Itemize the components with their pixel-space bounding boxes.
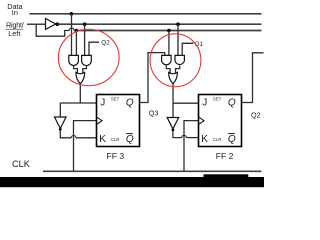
svg-text:FF 3: FF 3 — [107, 151, 125, 161]
label Q2 stub — [101, 40, 110, 47]
label Q3 — [149, 109, 159, 118]
junction dot line3 tap cluster2 — [167, 29, 171, 33]
inverter N2 — [167, 118, 179, 132]
wire: line3 drop to AND3 input — [168, 31, 170, 56]
taskbar black bar — [0, 177, 264, 187]
svg-text:J: J — [100, 98, 105, 109]
wire: J2 input — [173, 102, 199, 104]
junction dot line3 start — [75, 29, 79, 33]
svg-text:Q: Q — [126, 134, 134, 145]
wire: A1 output jog into OR1 — [74, 66, 78, 75]
label Q1 stub — [195, 41, 204, 48]
wire: direct bus (line 3) — [74, 30, 262, 32]
FF3 clock triangle — [97, 117, 102, 124]
taskbar bump — [204, 174, 249, 178]
wire hop K2 over clock riser — [182, 135, 187, 137]
label CLK — [12, 159, 31, 169]
red circle around gate cluster 1 — [58, 29, 119, 85]
svg-text:SET: SET — [213, 97, 222, 102]
wire: Q3 feedback — [140, 53, 165, 103]
label Right/Left(bar) — [6, 21, 25, 38]
wire hop over Data-In drop — [69, 28, 74, 30]
svg-text:Q: Q — [228, 134, 236, 145]
svg-text:Q2: Q2 — [101, 40, 110, 47]
wire: A3 output jog into OR2 — [166, 66, 170, 75]
svg-text:CLR: CLR — [111, 137, 120, 142]
wire: Right/Left under-loop — [36, 24, 69, 36]
svg-text:In: In — [12, 8, 18, 17]
label FF 2 — [216, 151, 234, 161]
wire: A2 output jog into OR1 — [83, 66, 87, 75]
label FF 3 — [107, 151, 125, 161]
wire: J1 input — [60, 102, 96, 104]
AND gate A3 — [162, 55, 172, 64]
AND gate A2 — [82, 55, 92, 65]
svg-text:Q3: Q3 — [149, 109, 159, 118]
OR gate O2 — [169, 72, 178, 83]
wire: K2 input — [186, 137, 198, 139]
wire: clock riser FF3 — [74, 121, 97, 171]
junction dot line2 tap cluster2 — [176, 22, 180, 26]
wire: N1 output to K1 — [60, 131, 71, 138]
wire: Right/Left input — [27, 23, 46, 25]
svg-text:J: J — [202, 98, 207, 109]
wire hop K1 over clock riser — [71, 136, 76, 138]
junction dot buffer output — [56, 22, 60, 26]
svg-text:Q2: Q2 — [251, 111, 261, 120]
label Q2 output — [251, 111, 261, 120]
flip-flop FF3 box — [97, 95, 140, 147]
wire: line2 drop to AND2 input — [84, 24, 86, 55]
wire: clock riser FF2 — [184, 121, 199, 171]
wire: Data In bus (line 1) — [30, 13, 262, 15]
wire: K1 input — [76, 137, 97, 139]
svg-text:Q: Q — [228, 98, 236, 109]
inverter N1 — [55, 117, 67, 131]
OR gate O1 — [76, 72, 85, 83]
svg-text:CLK: CLK — [12, 159, 31, 169]
wire: branch down to inverter N2 — [172, 103, 174, 117]
AND gate A4 — [175, 55, 184, 64]
svg-text:K: K — [99, 134, 106, 145]
wire: line1 drop to AND1 input — [71, 14, 73, 56]
svg-text:SET: SET — [111, 97, 120, 102]
wire: branch down to inverter N1 — [59, 103, 61, 117]
wire: Q2 feedback to right edge — [242, 53, 264, 103]
wire: buffered bus (line 2) — [57, 23, 261, 25]
label Data In — [7, 2, 23, 17]
wire: N2 output to K2 — [173, 131, 182, 137]
FF2 pin labels — [201, 97, 236, 145]
red circle around gate cluster 2 — [150, 34, 201, 87]
buffer U1 (Right/Left driver) — [46, 19, 56, 30]
wire: line3 drop to AND1 input — [75, 31, 77, 56]
svg-text:Left: Left — [8, 29, 20, 38]
svg-text:K: K — [201, 134, 208, 145]
wire: Q2 stub into AND2 — [89, 42, 99, 55]
AND gate A1 — [69, 55, 79, 65]
svg-text:FF 2: FF 2 — [216, 151, 234, 161]
svg-text:CLR: CLR — [213, 137, 222, 142]
junction dot line2 tap cluster1 — [83, 22, 87, 26]
svg-text:Q: Q — [126, 98, 134, 109]
FF2 clock triangle — [199, 117, 204, 124]
wire: A4 output jog into OR2 — [176, 66, 180, 75]
wire: O1 output to J1 — [79, 84, 81, 103]
FF3 pin labels — [99, 97, 134, 145]
wire: line2 drop to AND4 input — [177, 24, 179, 55]
junction dot line1 tap — [70, 12, 74, 16]
wire: Q1 stub into AND4 — [182, 43, 193, 55]
wire: CLK bus — [43, 170, 262, 172]
flip-flop FF2 box — [199, 95, 242, 147]
wire: O2 output to J2 — [172, 84, 174, 103]
